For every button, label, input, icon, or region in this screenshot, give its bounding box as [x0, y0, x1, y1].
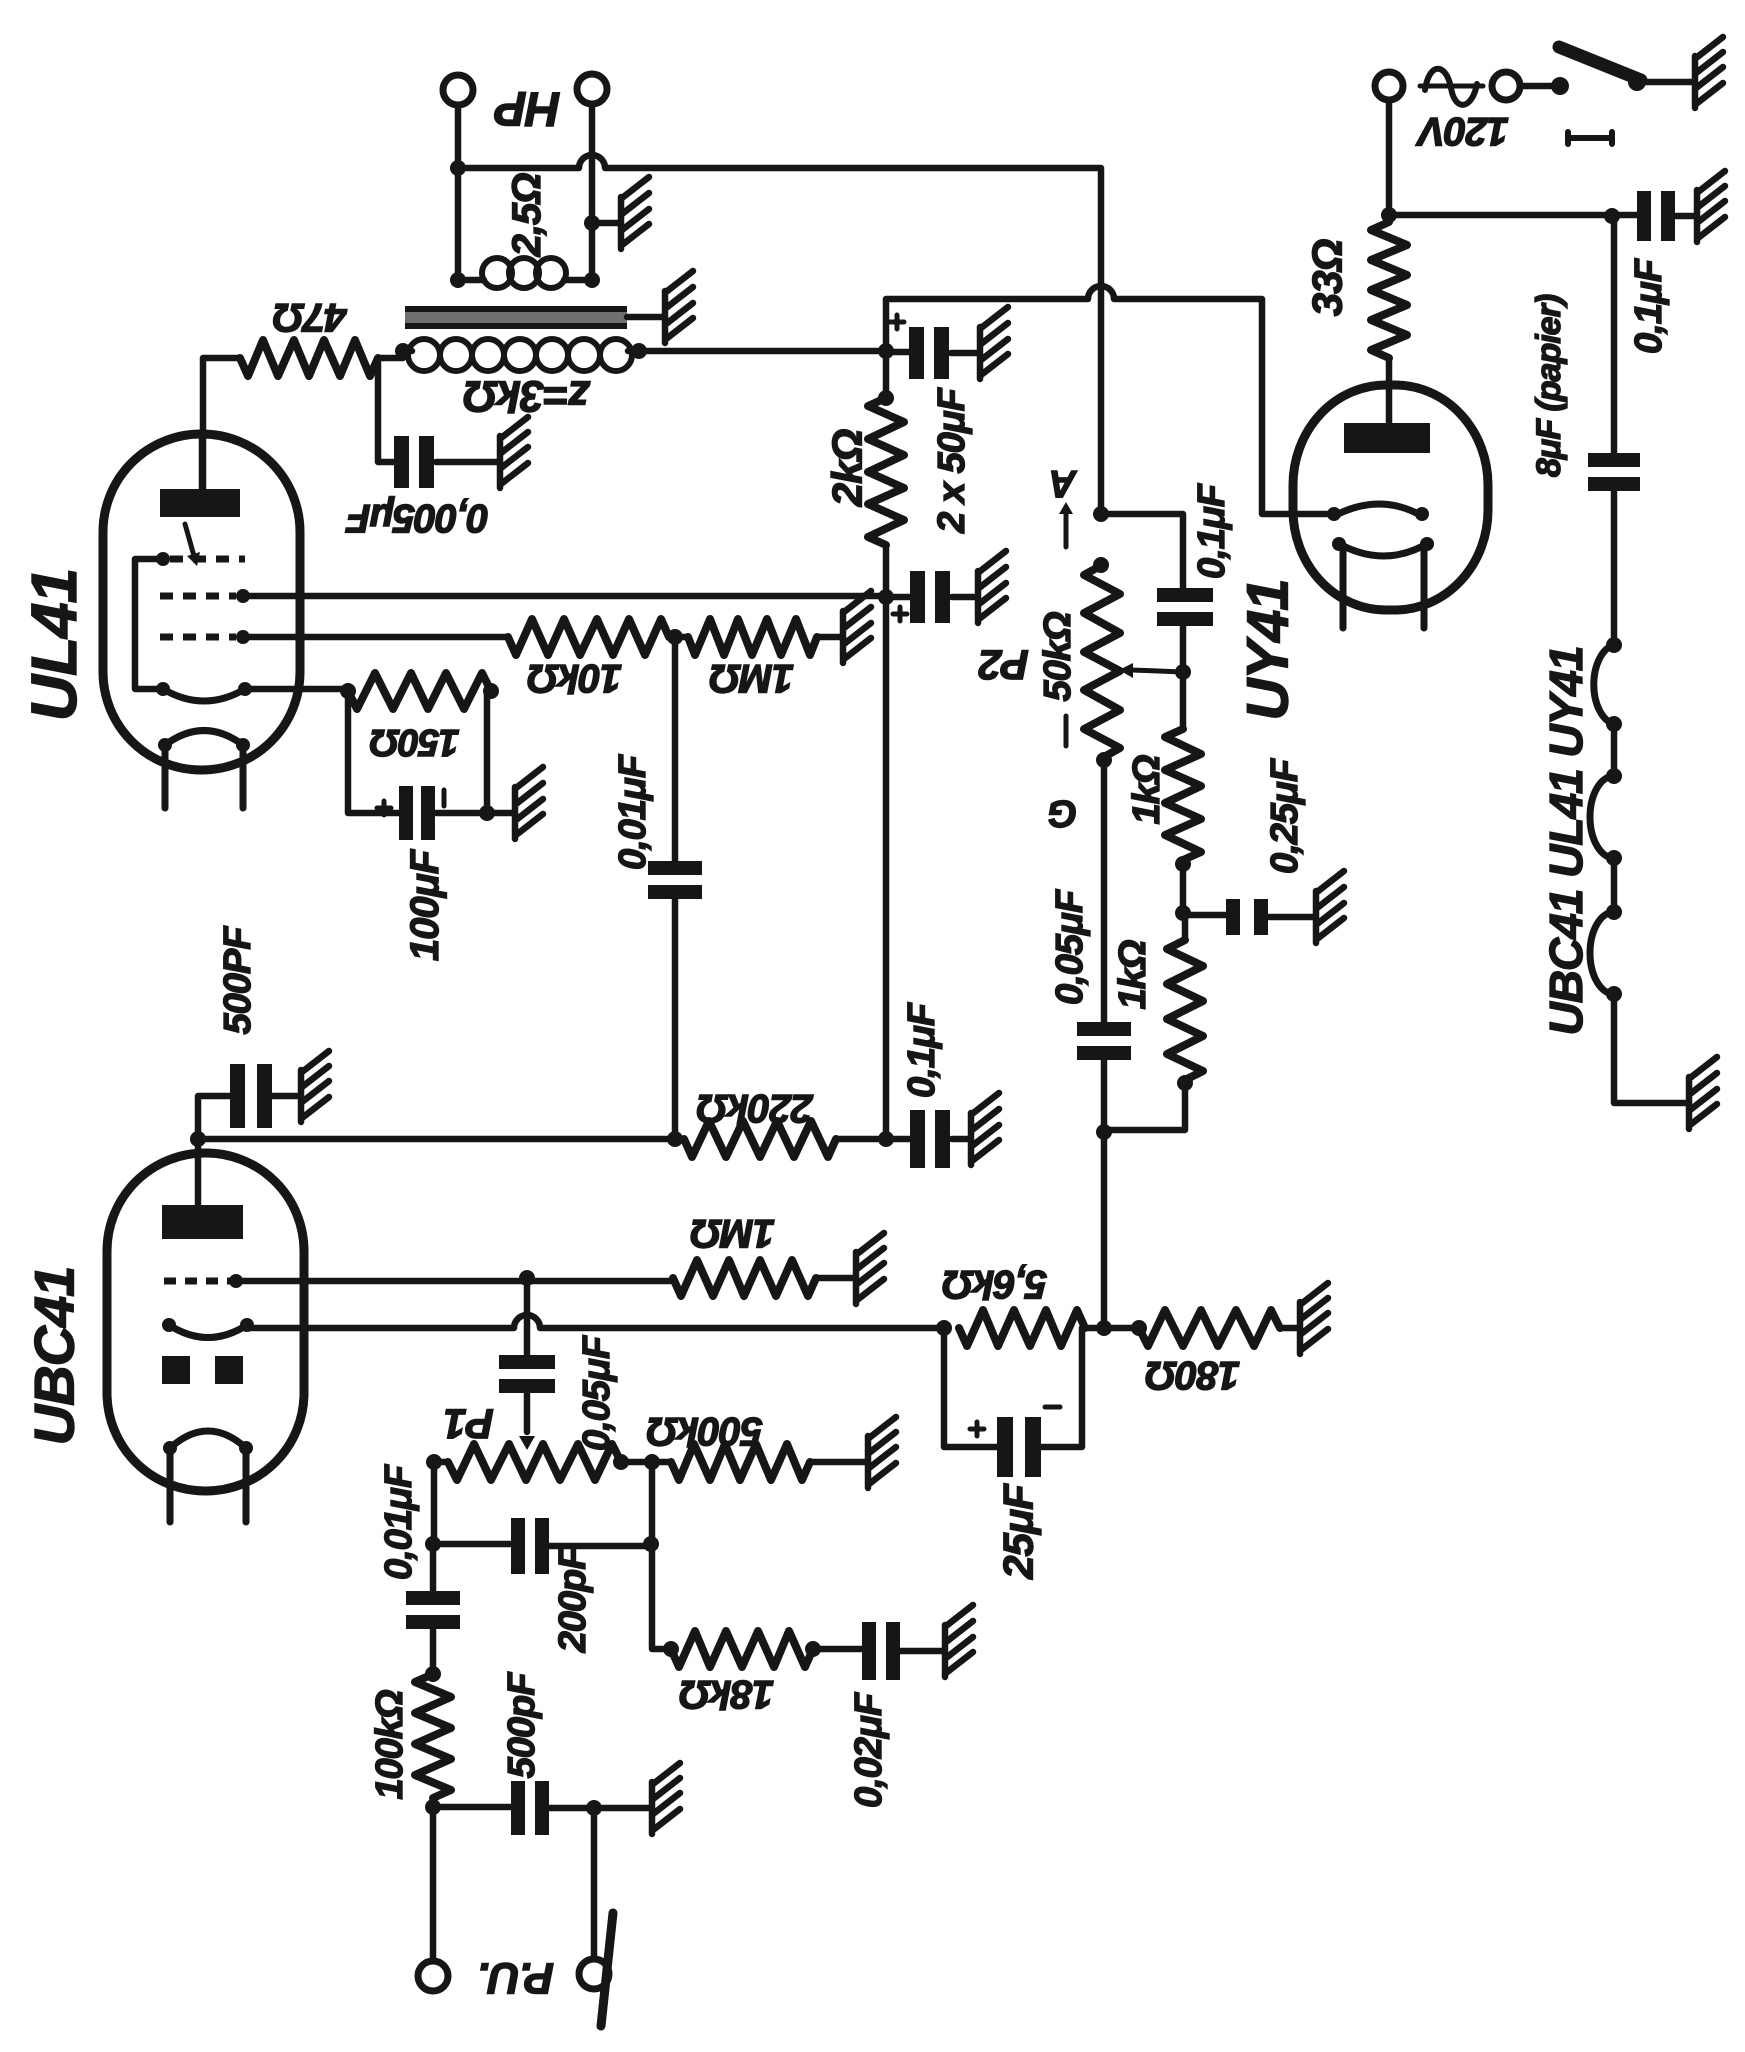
wire 500pF to ground	[548, 1805, 649, 1812]
wire 500k ground lead	[810, 1459, 865, 1466]
wire 0,02uF ground lead	[899, 1648, 942, 1655]
wire wiper node down	[1180, 672, 1187, 729]
capacitor 0,1uF (P2)	[1157, 588, 1213, 602]
wire 33ohm to UY41 plate	[1386, 358, 1393, 423]
tube UBC41 grid	[164, 1278, 230, 1285]
svg-text:500PF: 500PF	[217, 925, 259, 1035]
tube UY41 envelope	[1293, 385, 1488, 610]
wire 25uF loop left	[944, 1328, 999, 1447]
ground 50uF B	[978, 551, 1006, 623]
ground heater chain	[1689, 1057, 1717, 1129]
plus mark 50uF B	[893, 607, 907, 621]
resistor P2 50kohm	[1084, 565, 1120, 758]
tube UL41 plate	[160, 489, 240, 517]
svg-text:z=3kΩ: z=3kΩ	[463, 372, 591, 421]
resistor R 2kohm	[868, 398, 904, 545]
wire 0,01uF to 100k	[430, 1626, 437, 1674]
wire P1 left down	[431, 1462, 438, 1544]
tube UL41 grid g1	[160, 634, 236, 641]
tube UY41 cathode	[1334, 504, 1422, 516]
capacitor 100uF	[399, 786, 413, 840]
wire secondary ground stub	[592, 220, 618, 227]
wire 100uF loop left	[348, 691, 399, 813]
svg-text:UL41: UL41	[18, 569, 90, 722]
wire mains to 8uF	[1611, 216, 1618, 455]
ground 1M UL41	[843, 591, 871, 663]
svg-text:100μF: 100μF	[403, 848, 447, 961]
terminal HP left	[443, 75, 473, 105]
wire 50uF-A ground lead	[951, 350, 977, 357]
svg-text:0,1μF: 0,1μF	[901, 1001, 943, 1098]
svg-text:500pF: 500pF	[501, 1671, 543, 1779]
svg-text:0,01μF: 0,01μF	[612, 753, 654, 870]
UY41 pin dots	[1327, 507, 1434, 551]
tube UL41 grid g2	[160, 593, 236, 600]
coil speaker voice-coil 2,5ohm	[482, 258, 566, 288]
resistor R 5,6kohm	[959, 1310, 1085, 1346]
AC symbol	[1420, 84, 1483, 89]
svg-text:50kΩ: 50kΩ	[1037, 612, 1079, 701]
transformer core	[405, 309, 627, 326]
wire 0,01uF top lead	[672, 637, 679, 864]
svg-text:220kΩ: 220kΩ	[697, 1086, 814, 1130]
wire cathode ground stub	[487, 810, 512, 817]
wire grid down to 0,05uF	[524, 1281, 531, 1358]
svg-text:1MΩ: 1MΩ	[709, 656, 794, 700]
wire mains node to 0,1uF	[1389, 212, 1638, 219]
svg-text:HP: HP	[494, 82, 561, 135]
svg-text:1kΩ: 1kΩ	[1112, 940, 1154, 1009]
svg-text:0,05μF: 0,05μF	[1049, 888, 1091, 1005]
terminal mains 120V right	[1492, 72, 1520, 100]
capacitor 0,05uF (P2)	[1077, 1022, 1131, 1036]
UBC41 pin dots	[162, 1274, 254, 1455]
coil transformer primary Z=3k	[408, 339, 632, 371]
svg-text:0,25μF: 0,25μF	[1264, 757, 1306, 874]
resistor P1 pot 500k	[448, 1444, 621, 1480]
svg-text:A: A	[1050, 462, 1077, 504]
svg-text:P2: P2	[979, 642, 1029, 689]
wire 0,05uF to P1 wiper	[524, 1390, 531, 1432]
wire 180 ground lead	[1280, 1325, 1297, 1332]
wire primary to B+ node	[639, 348, 886, 355]
svg-text:UY41: UY41	[1236, 579, 1301, 720]
UL41 pin dots	[156, 552, 252, 752]
tube UBC41 cathode	[169, 1325, 247, 1338]
wire UL41 cathode lead	[245, 686, 348, 693]
wire 0,25uF ground lead	[1269, 914, 1313, 921]
capacitor 0,05uF (UBC41 grid)	[499, 1355, 555, 1369]
ground UL41 cathode	[515, 767, 543, 839]
svg-text:25μF: 25μF	[995, 1483, 1042, 1580]
tube UL41 envelope	[103, 434, 300, 770]
tube UBC41 plate	[162, 1205, 243, 1239]
capacitor 0,25uF	[1226, 899, 1240, 935]
wire secondary right	[564, 277, 592, 284]
wire UBC41 grid line	[236, 1278, 527, 1285]
wire HP-right lead	[589, 104, 596, 280]
svg-text:0,01μF: 0,01μF	[378, 1463, 420, 1580]
wire P1 right down	[652, 1462, 671, 1649]
terminal P.U. right	[579, 1959, 609, 1989]
A-G link	[1064, 716, 1069, 746]
wire 0,01uF lead	[430, 1544, 437, 1594]
wire UBC41 plate riser	[198, 1096, 232, 1205]
wire 2k top lead	[883, 351, 890, 398]
resistor R 220kohm	[684, 1121, 836, 1157]
capacitor 200pF	[511, 1518, 525, 1574]
plus mark 25uF	[970, 1422, 984, 1436]
wire 100k to PU	[430, 1798, 437, 1961]
ground 500pF	[652, 1763, 680, 1834]
svg-text:18kΩ: 18kΩ	[679, 1672, 774, 1716]
tube UBC41 diode plates	[162, 1356, 190, 1384]
svg-text:1kΩ: 1kΩ	[1126, 755, 1168, 824]
heater UL41 (chain)	[1590, 776, 1614, 858]
ground 180ohm	[1300, 1283, 1328, 1354]
ground 0,1uF decoupling	[971, 1093, 999, 1165]
wire primary right lead	[628, 348, 639, 355]
ground speaker secondary	[621, 177, 649, 249]
wire 200pF lead left	[433, 1541, 512, 1548]
wire secondary left	[458, 277, 484, 284]
wire 0,005uF to ground	[436, 459, 497, 466]
ground 0,25uF	[1316, 871, 1344, 943]
wire 0,25uF lead	[1183, 912, 1227, 919]
svg-text:33Ω: 33Ω	[1304, 240, 1351, 317]
wire B+ rail to rectifier (hump over P2 line)	[886, 286, 1334, 514]
svg-text:500kΩ: 500kΩ	[647, 1409, 763, 1453]
minus mark 25uF	[1045, 1405, 1060, 1410]
wire 0,1uF ground lead	[952, 1136, 968, 1143]
label I (switch)	[1568, 132, 1612, 144]
wire P2 top to 0,1uF	[1101, 514, 1183, 590]
heater UY41 (chain)	[1594, 645, 1614, 724]
switch I lever	[1559, 47, 1641, 80]
wire 18k to 0,02uF	[813, 1646, 863, 1653]
wire UL41 g2 to screen node	[243, 593, 886, 600]
wire 1k lower lead	[1182, 915, 1189, 940]
switch contacts	[1551, 73, 1646, 95]
svg-text:1MΩ: 1MΩ	[690, 1211, 775, 1255]
wire 100uF loop right	[436, 691, 487, 813]
svg-text:0,05μF: 0,05μF	[576, 1334, 618, 1451]
capacitor 0,1uF (mains)	[1637, 191, 1651, 241]
resistor R 100kohm	[415, 1674, 451, 1798]
ground 0,1uF mains	[1697, 171, 1725, 242]
wire chain 2	[1611, 858, 1618, 912]
heater UBC41 (chain)	[1590, 912, 1614, 994]
svg-text:UBC41 UL41 UY41: UBC41 UL41 UY41	[1540, 647, 1592, 1036]
capacitor 50uF section A	[909, 327, 924, 379]
wire UBC41 plate line	[198, 1136, 684, 1143]
ground switch	[1695, 37, 1723, 108]
ground 1M UBC41	[856, 1233, 884, 1304]
svg-text:120V: 120V	[1415, 109, 1509, 153]
resistor R 18kohm	[671, 1631, 813, 1667]
P2 wiper	[1132, 670, 1183, 672]
svg-text:0,1μF: 0,1μF	[1628, 257, 1670, 354]
capacitor 0,1uF (decoupling)	[910, 1110, 925, 1168]
terminal mains 120V left	[1375, 72, 1403, 100]
tube UBC41 heater	[170, 1431, 246, 1522]
wire 500PF ground lead	[272, 1093, 298, 1100]
wire 47ohm left lead to UL41 plate	[203, 358, 240, 489]
svg-text:47Ω: 47Ω	[273, 295, 347, 339]
capacitor 0,02uF	[862, 1622, 876, 1680]
svg-text:0,005μF: 0,005μF	[345, 496, 489, 540]
A arrow	[1064, 508, 1069, 547]
svg-text:UBC41: UBC41	[23, 1267, 86, 1446]
wire switch to ground	[1646, 79, 1692, 86]
svg-text:0,02μF: 0,02μF	[848, 1691, 890, 1808]
wire P2 bottom down	[1101, 758, 1108, 1024]
ground 500PF	[301, 1051, 329, 1122]
wire 1k to 0,25 node	[1180, 860, 1187, 915]
resistor R 180ohm	[1139, 1310, 1280, 1346]
wire 0,1uF to wiper node	[1180, 624, 1187, 672]
wire 1k lower to 0,05 line	[1104, 1080, 1185, 1130]
ground 500kohm	[868, 1417, 896, 1488]
wire chain 1	[1611, 724, 1618, 776]
resistor R 1kohm lower	[1167, 940, 1203, 1080]
resistor R 10kohm	[508, 619, 669, 655]
wire P1 left lead	[434, 1459, 448, 1466]
svg-text:2kΩ: 2kΩ	[824, 430, 871, 508]
wire 2k bottom lead	[883, 545, 890, 597]
ground 0,02uF	[945, 1605, 973, 1677]
capacitor 0,01uF (UL41)	[648, 861, 702, 875]
svg-text:10kΩ: 10kΩ	[527, 656, 622, 700]
plus mark 50uF A	[890, 315, 904, 329]
resistor R 150ohm	[348, 673, 491, 709]
wire primary left lead	[403, 348, 412, 355]
wire UL41 plate lead	[199, 434, 206, 489]
tube UL41 cathode	[163, 689, 245, 701]
wire 1M to ground	[817, 634, 840, 641]
svg-text:2 x 50μF: 2 x 50μF	[931, 386, 973, 534]
svg-text:5,6kΩ: 5,6kΩ	[942, 1262, 1047, 1306]
tube UBC41 envelope	[107, 1153, 304, 1491]
wire 8uF to heater chain	[1611, 489, 1618, 645]
heater chain dots	[1606, 637, 1622, 1002]
wire grid to 1M	[527, 1278, 673, 1285]
capacitor 500pF	[511, 1781, 525, 1835]
wire UL41 g3-cathode strap	[135, 559, 163, 689]
UL41 grid arrow	[185, 524, 194, 556]
wire top rail from HP to P2 (hump over HP-right lead)	[458, 155, 1101, 513]
ground 0,005uF	[500, 417, 528, 488]
wire core ground stub	[627, 314, 662, 321]
svg-text:8μF (papier): 8μF (papier)	[1530, 294, 1568, 477]
wire 50uF-A lead	[886, 349, 910, 356]
resistor R 47ohm	[240, 340, 378, 376]
tube UL41 heater	[165, 731, 243, 809]
tube UY41 heater	[1336, 542, 1430, 628]
wire 1M UBC41 ground lead	[816, 1275, 853, 1282]
tube UY41 plate	[1344, 423, 1430, 453]
resistor R 1kohm upper	[1165, 729, 1201, 860]
svg-text:150Ω: 150Ω	[370, 721, 459, 763]
wire terminal to switch	[1521, 83, 1560, 90]
wire 0,01uF bottom lead	[672, 896, 679, 1139]
svg-text:200pF: 200pF	[552, 1545, 594, 1654]
resistor R 500kohm	[671, 1444, 810, 1480]
capacitor 0,005uF	[394, 436, 409, 488]
wire mains 0,1uF ground lead	[1676, 213, 1694, 220]
minus mark 100uF	[442, 790, 447, 806]
wire bottom to 500pF	[433, 1804, 512, 1811]
svg-text:P.U.: P.U.	[478, 1954, 554, 2003]
svg-text:100kΩ: 100kΩ	[369, 1690, 411, 1800]
terminal P.U. left	[418, 1961, 448, 1991]
tube UL41 grid g3	[170, 556, 245, 563]
wire 50uF-B ground lead	[952, 594, 975, 601]
P1 wiper arrow	[519, 1436, 535, 1450]
wire 25uF loop right	[1041, 1328, 1082, 1447]
ground transformer core	[665, 271, 693, 343]
wire 0,05uF down to cathode junction	[1101, 1058, 1108, 1328]
svg-text:180Ω: 180Ω	[1145, 1353, 1240, 1397]
resistor R 1Mohm (UL41 grid)	[688, 619, 817, 655]
svg-text:2,5Ω: 2,5Ω	[505, 173, 549, 258]
node P2 top	[1093, 506, 1109, 573]
wire HP-left lead	[455, 105, 462, 280]
wire 5,6k to 180 junction	[1085, 1325, 1139, 1332]
wire 47ohm right lead / node	[378, 358, 403, 462]
wire UBC41 cathode line (hump over grid line)	[247, 1315, 944, 1328]
svg-text:G: G	[1048, 792, 1077, 834]
resistor R 1Mohm (UBC41 grid)	[673, 1260, 816, 1296]
svg-text:P1: P1	[444, 1401, 493, 1448]
wire 10k-1M junction	[669, 634, 688, 641]
wire 200pF lead right	[548, 1543, 651, 1550]
capacitor 500PF	[230, 1064, 245, 1128]
ground 50uF A	[980, 307, 1008, 379]
wire screen node to 50uF-B	[886, 594, 911, 601]
wire chain to ground	[1614, 994, 1686, 1103]
wire screen node down to 0,1uF node	[883, 597, 890, 1139]
wire 220k to 0,1uF node	[836, 1136, 913, 1143]
plus mark 100uF	[377, 801, 391, 815]
capacitor 8uF papier	[1588, 453, 1640, 467]
wire 120V down	[1386, 100, 1393, 222]
svg-text:0,1μF: 0,1μF	[1191, 482, 1233, 579]
resistor R 33ohm	[1371, 222, 1407, 358]
wire PU right riser	[591, 1808, 598, 1959]
capacitor 50uF section B	[910, 571, 925, 623]
capacitor 0,01uF (P1)	[406, 1591, 460, 1605]
wire UL41 g1 lead	[243, 634, 508, 641]
wire P1 to 500k	[621, 1459, 671, 1466]
terminal HP right	[577, 74, 607, 104]
capacitor 25uF	[997, 1417, 1013, 1477]
P.U. pickup stroke	[601, 1913, 613, 2026]
